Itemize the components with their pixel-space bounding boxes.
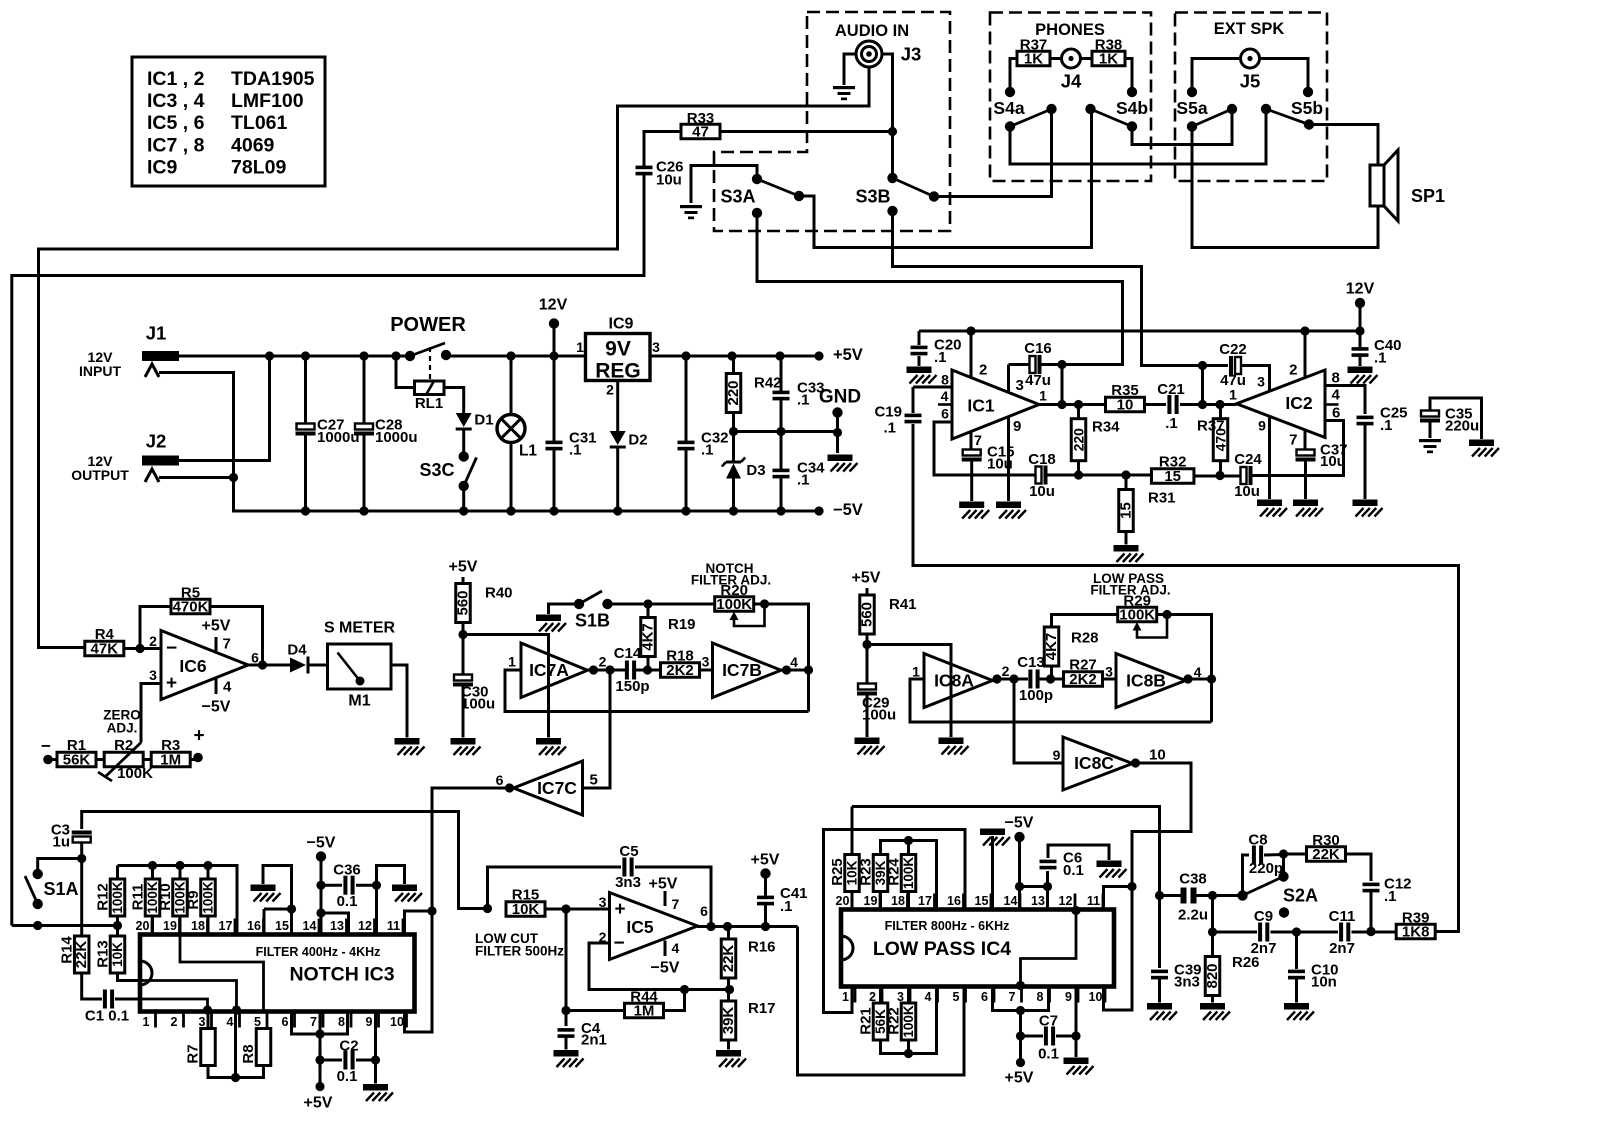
voltage regulator IC9 [576, 316, 660, 398]
wire C34 bottom [780, 477, 783, 511]
wire R24 top [907, 841, 910, 855]
svg-text:13: 13 [330, 919, 344, 933]
wire R37 top [1219, 405, 1222, 419]
wire J5 right down [1260, 59, 1309, 93]
svg-text:100K: 100K [110, 881, 125, 914]
wire C32 top [685, 356, 688, 442]
svg-text:0.1: 0.1 [337, 893, 358, 910]
chassis ground at C25 [1353, 500, 1383, 517]
wire R44 right lead [664, 990, 685, 1011]
svg-text:4: 4 [925, 990, 932, 1004]
svg-text:+5V: +5V [852, 570, 881, 587]
wire C2 right [356, 1055, 380, 1064]
svg-text:100K: 100K [201, 881, 216, 914]
svg-text:17: 17 [219, 919, 233, 933]
IC7A pin2 label [599, 654, 607, 670]
wire C3 top to IC3 input bus [82, 812, 492, 914]
diode D1 [456, 412, 494, 431]
wire R31 top [1125, 475, 1128, 490]
capacitor C19 [874, 404, 921, 437]
IC1 pin 2 [971, 331, 987, 379]
resistor R30 [1307, 832, 1346, 863]
R20 wiper arrow [730, 606, 765, 626]
wire M1 to ground [391, 665, 407, 738]
svg-text:C16: C16 [1024, 340, 1052, 357]
svg-text:M1: M1 [348, 693, 370, 710]
+5V terminal below IC4 [1005, 1070, 1034, 1087]
wire D3 top [732, 432, 735, 462]
svg-text:9: 9 [1258, 418, 1266, 434]
wire R7 top [207, 1012, 210, 1029]
svg-text:R42: R42 [754, 375, 782, 392]
capacitor C22 [1219, 341, 1247, 389]
svg-text:15: 15 [975, 894, 989, 908]
wire S1A bottom rail [12, 921, 122, 930]
wire pin12 node to ground [377, 866, 405, 886]
pin label 16 (top) [247, 919, 263, 935]
wire C22 left [1203, 364, 1229, 367]
svg-text:+5V: +5V [1005, 1070, 1034, 1087]
wire 12V terminal [553, 324, 556, 357]
-5V terminal at IC4 [1005, 815, 1034, 843]
switch POWER arm [390, 314, 466, 356]
chassis ground at IC3 pin9 [363, 1084, 393, 1101]
svg-text:4K7: 4K7 [1043, 633, 1060, 661]
svg-text:7: 7 [1009, 990, 1016, 1004]
pin label 12 (top) [358, 919, 374, 935]
pin label 3 (bottom) [199, 1012, 212, 1030]
wire R30 right to C12 [1346, 854, 1372, 881]
capacitor C41 [757, 885, 808, 915]
12V input terminal [539, 297, 568, 329]
connector J1 [79, 323, 179, 380]
svg-text:1000u: 1000u [375, 429, 418, 446]
wire pin9 to ground [374, 1012, 377, 1084]
svg-text:C8: C8 [1248, 832, 1267, 849]
wire IC7A pin1 feedback [505, 670, 809, 712]
svg-text:−5V: −5V [833, 501, 863, 519]
wire C27 leads [304, 356, 307, 424]
wire R37 left down [1010, 59, 1017, 93]
PHONES dashed box [990, 13, 1151, 182]
svg-text:100K: 100K [901, 857, 916, 890]
connector J5 (speaker jack) [1240, 49, 1261, 92]
table row IC1 , 2 TDA1905 [147, 68, 315, 90]
op-amp IC6 [161, 631, 248, 700]
IC1 pins 4/6 [938, 388, 952, 422]
pin label 17 (top) [918, 894, 934, 910]
svg-text:S5b: S5b [1291, 98, 1323, 118]
wire R17 bottom [727, 1040, 730, 1050]
resistor R1 [57, 737, 96, 769]
svg-text:19: 19 [864, 894, 878, 908]
svg-text:220p: 220p [1249, 860, 1283, 877]
wire R35-C21 [1145, 403, 1167, 406]
wire R33 right to J3 node [720, 127, 897, 136]
svg-text:3: 3 [149, 667, 157, 683]
svg-text:IC9: IC9 [147, 157, 178, 179]
wire C35 top loop [1430, 398, 1482, 439]
wire C29 bottom [866, 696, 869, 738]
wire R14 bottom to C1 [82, 973, 102, 999]
wire IC2 pin8 to C25 [1325, 386, 1365, 415]
svg-text:15: 15 [1118, 502, 1135, 519]
capacitor C18 [1028, 451, 1056, 500]
resistor R28 [1043, 627, 1099, 666]
speaker SP1 [1370, 150, 1445, 221]
wire GND down [836, 413, 839, 454]
wire pin10 link [1104, 987, 1133, 1011]
wire R21/R22 bottom rail [881, 987, 937, 1059]
wire IC4 pins 6-8 net [993, 987, 1049, 1016]
wire C2 left [320, 1059, 342, 1062]
svg-text:100K: 100K [901, 1005, 916, 1038]
svg-text:6: 6 [496, 772, 504, 788]
wire R12 top [116, 866, 119, 880]
wire IC4 pin15 to ground [991, 836, 994, 910]
chassis ground above IC4 pin15 [980, 829, 1010, 846]
resistor R12 [95, 879, 126, 916]
svg-text:−5V: −5V [202, 699, 231, 716]
capacitor C27 [296, 417, 360, 447]
resistor R17 [720, 1000, 776, 1040]
wire R18 left [648, 669, 662, 672]
wire IC8A output [992, 674, 1028, 683]
wire C28 lower lead [363, 436, 366, 512]
switch S3A contacts [752, 174, 804, 218]
resistor R37 (470) [1197, 418, 1229, 461]
svg-text:7: 7 [310, 1015, 317, 1029]
wire R38 right down [1125, 59, 1132, 93]
svg-text:10u: 10u [1029, 483, 1055, 500]
wire R41 node through IC8A [867, 645, 951, 738]
svg-text:220: 220 [725, 380, 742, 405]
IC1 pin 3 [1009, 365, 1024, 395]
svg-text:0.1: 0.1 [337, 1068, 358, 1085]
svg-text:10u: 10u [656, 172, 682, 189]
pin label 7 (bottom) [1009, 987, 1022, 1005]
svg-text:.1: .1 [1384, 888, 1397, 905]
svg-text:R34: R34 [1092, 419, 1120, 436]
pin label 6 (bottom) [981, 987, 994, 1005]
wire pin7 to +5V [315, 1012, 324, 1092]
wire R20 right [754, 599, 813, 711]
IC8B pin3 label [1105, 664, 1113, 680]
svg-text:R39: R39 [1402, 910, 1430, 927]
svg-text:IC1 , 2: IC1 , 2 [147, 68, 205, 90]
svg-text:R17: R17 [748, 1000, 776, 1017]
pin label 19 (top) [163, 919, 179, 935]
wire J2 sleeve [159, 476, 234, 479]
pin label 10 (bottom) [390, 1012, 406, 1030]
resistor R25 [829, 855, 860, 892]
svg-text:10u: 10u [1320, 453, 1346, 470]
wire C7 left [1021, 1035, 1044, 1038]
wire R40 bottom [458, 623, 467, 676]
wire C3 bottom [77, 842, 86, 864]
svg-text:820: 820 [1204, 963, 1221, 988]
wire L1 top [510, 356, 513, 415]
svg-text:13: 13 [1031, 894, 1045, 908]
wire C22 right to pin3 [1240, 366, 1270, 393]
wire R23/R24 rail [881, 836, 937, 910]
svg-text:1: 1 [576, 339, 584, 355]
+5V terminal at R40 [449, 559, 478, 576]
svg-text:IC5 , 6: IC5 , 6 [147, 112, 205, 134]
svg-text:C36: C36 [333, 862, 361, 879]
svg-text:S1A: S1A [43, 879, 78, 899]
wire IC4 pin11 link [1104, 887, 1133, 910]
wire R27 left [1051, 678, 1065, 681]
capacitor C1 [103, 990, 114, 1009]
IC1 pin 7 [971, 432, 982, 451]
wire R1 left [48, 758, 57, 761]
switch S3B arm [855, 178, 934, 207]
svg-text:L1: L1 [519, 443, 537, 460]
wire S2A common [1213, 894, 1243, 897]
IC2 pins 4/6 [1325, 387, 1341, 422]
svg-text:15: 15 [275, 919, 289, 933]
svg-text:2.2u: 2.2u [1178, 907, 1208, 924]
pin label 17 (top) [219, 919, 235, 935]
svg-text:R37: R37 [1197, 418, 1225, 435]
svg-text:3: 3 [599, 894, 607, 910]
wire IC1 output [1039, 400, 1106, 409]
resistor R13 [95, 936, 126, 973]
wire R17 top [727, 990, 730, 1002]
svg-text:2: 2 [171, 1015, 178, 1029]
wire C9 left [1213, 931, 1258, 934]
wire C24 right to IC2 pin6 [1253, 421, 1344, 476]
chassis ground at C15 [959, 502, 989, 519]
wire IC6 output [248, 660, 290, 669]
wire J3 left lead to ground [844, 54, 856, 85]
wire 12V rail over IC1/IC2 [919, 326, 1365, 335]
svg-text:EXT SPK: EXT SPK [1214, 20, 1285, 38]
wire R28 bottom [1050, 666, 1053, 679]
svg-text:3n3: 3n3 [615, 874, 641, 891]
ground at S3A [680, 205, 702, 219]
IC2 pin 1 label [1229, 387, 1237, 403]
svg-text:1: 1 [143, 1015, 150, 1029]
wire IC3 interior pin3 [140, 999, 212, 1015]
IC6 pin 3 label [149, 667, 177, 694]
pin label 8 (bottom) [1037, 987, 1050, 1005]
svg-text:S METER: S METER [324, 620, 396, 637]
resistor R16 [720, 939, 776, 979]
capacitor C9 [1251, 908, 1277, 957]
wire R34 bottom [1077, 461, 1080, 475]
svg-text:3: 3 [1016, 377, 1024, 394]
capacitor C32 [678, 430, 729, 459]
switch POWER contacts [405, 350, 451, 361]
svg-text:R24: R24 [886, 858, 903, 886]
svg-text:2: 2 [979, 362, 987, 379]
chassis ground at C30 [451, 738, 481, 755]
wire C6 bottom lead [1046, 871, 1049, 887]
svg-text:INPUT: INPUT [79, 363, 121, 379]
IC2 pin 7 [1289, 430, 1305, 449]
wire pin13 branch [321, 913, 349, 935]
wire IC7A output [588, 665, 626, 674]
switch S2A contacts [1237, 871, 1289, 917]
svg-text:R29: R29 [1123, 593, 1151, 610]
wire S3B common to S4a [934, 109, 1052, 197]
svg-text:150p: 150p [615, 678, 649, 695]
wire R41 bottom [862, 633, 871, 684]
wire R25 top rail to C38 [852, 807, 1164, 969]
chassis ground at M1 [395, 738, 425, 755]
svg-text:J4: J4 [1061, 71, 1082, 92]
wire IC3 pin16-15 ground loop [264, 904, 296, 934]
svg-text:C14: C14 [614, 645, 642, 662]
wire pin15 up to ground [263, 866, 292, 910]
svg-text:5: 5 [254, 1015, 261, 1029]
switch S3A arm [720, 179, 799, 207]
resistor R5 [171, 585, 210, 616]
wire IC3 pins 6-8 net [292, 1012, 348, 1039]
wire R5 right to output [210, 607, 263, 666]
connector J4 (phone jack) [1061, 49, 1082, 92]
inverter IC7B [713, 643, 782, 698]
svg-text:J2: J2 [146, 431, 167, 452]
svg-text:15: 15 [1164, 468, 1181, 485]
wire S1B to ground [549, 604, 580, 614]
wire R22 bottom [907, 1040, 910, 1054]
pin label 18 (top) [191, 919, 207, 935]
svg-text:J1: J1 [146, 323, 167, 344]
svg-text:POWER: POWER [390, 314, 466, 336]
pin label 11 (top) [1087, 894, 1103, 910]
capacitor C38 [1178, 871, 1208, 924]
wire C28 leads [363, 356, 366, 424]
resistor R23 [858, 855, 889, 892]
switch S4b arm [1091, 98, 1149, 127]
dashed link POWER to RL1 [429, 347, 431, 380]
chassis ground below IC8A [939, 738, 969, 755]
resistor R24 [886, 855, 917, 892]
IC5 pin 4 [651, 940, 680, 977]
+5V terminal below IC3 [304, 1095, 333, 1112]
svg-text:TL061: TL061 [231, 112, 288, 134]
svg-text:2K2: 2K2 [1069, 671, 1097, 688]
+5V terminal at R41 [852, 570, 881, 587]
svg-text:.1: .1 [883, 420, 896, 437]
IC7C pin5 label [590, 772, 598, 789]
capacitor C24 [1234, 451, 1262, 500]
pin label 1 (bottom) [143, 1012, 156, 1030]
svg-text:2: 2 [606, 382, 614, 398]
resistor R33 [681, 110, 720, 141]
chassis ground at IC3 pin16 [251, 885, 281, 902]
svg-text:IC7 , 8: IC7 , 8 [147, 135, 205, 157]
table row IC7 , 8 4069 [147, 135, 275, 157]
wire IC8A pin1 feedback [910, 679, 1212, 722]
svg-text:R16: R16 [748, 939, 776, 956]
pin label 15 (top) [975, 894, 991, 910]
svg-text:R37: R37 [1020, 37, 1048, 54]
svg-text:10: 10 [1117, 397, 1134, 414]
wire C33 top [780, 356, 783, 392]
wire C4 bottom [565, 1037, 568, 1050]
svg-text:D4: D4 [287, 642, 307, 659]
IC6 pin 2 label [149, 633, 177, 659]
pin label 9 (bottom) [1065, 987, 1078, 1005]
chassis ground below IC7A [536, 738, 566, 755]
capacitor C26 [636, 159, 684, 189]
wire C6 top to ground [1048, 845, 1109, 860]
pin label 2 (bottom) [171, 1012, 184, 1030]
switch S5a arm [1176, 98, 1232, 127]
svg-text:R28: R28 [1071, 630, 1099, 647]
capacitor C13 [1017, 654, 1053, 704]
svg-text:220u: 220u [1445, 418, 1479, 435]
svg-text:7: 7 [672, 896, 680, 912]
svg-text:IC8C: IC8C [1074, 753, 1114, 773]
resistor R15 [506, 887, 545, 919]
wire -5V to pin14 [1015, 837, 1024, 910]
resistor R4 [85, 626, 124, 658]
resistor R31 [1118, 490, 1176, 532]
plus terminal [193, 726, 204, 763]
IC7C pin6 label [496, 772, 504, 788]
chassis ground at R26 [1200, 1003, 1230, 1020]
chassis ground right of C35 [1469, 440, 1499, 457]
switch S4b contacts [1085, 87, 1137, 132]
wire C41 top [764, 874, 767, 898]
wire R2-R3 [144, 758, 153, 761]
svg-text:+: + [193, 726, 204, 747]
svg-text:C22: C22 [1219, 341, 1247, 358]
svg-text:2: 2 [1289, 362, 1297, 379]
svg-text:14: 14 [303, 919, 317, 933]
wire C5 right to output [635, 867, 711, 927]
svg-text:14: 14 [1004, 894, 1018, 908]
svg-text:R4: R4 [95, 626, 115, 643]
chassis ground at C6 [1097, 861, 1127, 878]
IC5 pin 7 [649, 876, 680, 913]
IC1 pin 8 wire [913, 372, 952, 388]
svg-text:100p: 100p [1019, 687, 1053, 704]
wire pin9 to ground [1075, 987, 1078, 1058]
minus terminal [41, 737, 53, 765]
svg-text:.1: .1 [701, 442, 714, 459]
wire mid gnd rail [729, 427, 842, 437]
capacitor C33 [773, 380, 825, 409]
svg-text:R22: R22 [886, 1007, 903, 1035]
svg-text:10u: 10u [1234, 483, 1260, 500]
capacitor C30 [453, 675, 495, 713]
pin label 2 (bottom) [869, 987, 882, 1005]
LOW PASS FILTER ADJ label [1090, 571, 1170, 598]
chassis ground at C39 [1147, 1003, 1177, 1020]
svg-text:2: 2 [149, 633, 157, 649]
wire C37 bottom [1304, 462, 1307, 500]
resistor R19 [640, 616, 696, 657]
svg-text:0.1: 0.1 [1038, 1046, 1059, 1063]
svg-text:2: 2 [599, 654, 607, 670]
svg-text:R7: R7 [185, 1044, 202, 1063]
svg-text:−: − [613, 933, 624, 954]
svg-text:8: 8 [941, 372, 949, 388]
IC2 pin 9 [1258, 417, 1269, 500]
svg-text:IC3 , 4: IC3 , 4 [147, 90, 205, 112]
wire C20 bottom [918, 356, 921, 366]
wire C38 right [1194, 891, 1217, 900]
IC8A pin2 label [1002, 663, 1010, 679]
svg-text:−: − [166, 638, 177, 659]
svg-text:IC9: IC9 [609, 316, 634, 333]
